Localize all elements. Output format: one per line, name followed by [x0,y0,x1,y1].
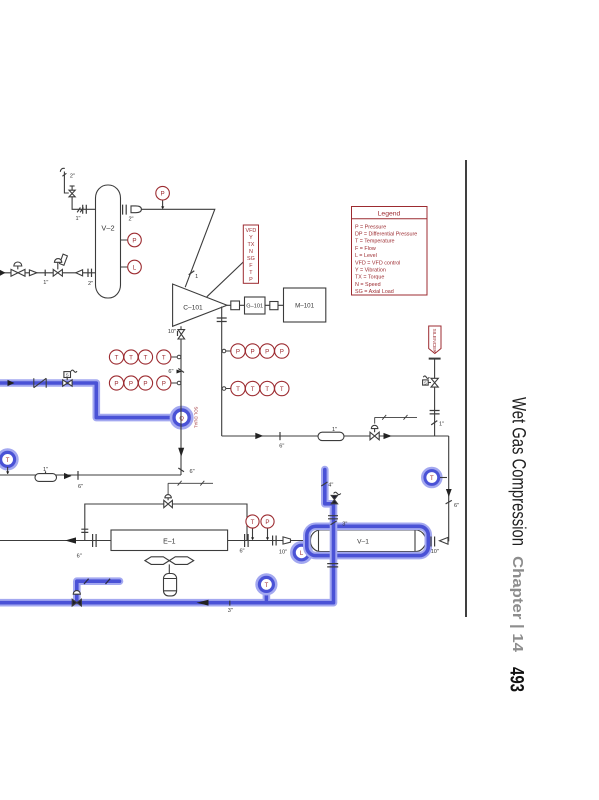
svg-text:S: S [424,380,427,385]
svg-text:T: T [144,354,148,361]
svg-text:E–1: E–1 [163,539,176,546]
svg-text:1": 1" [75,216,80,222]
svg-text:VFD: VFD [246,228,257,234]
svg-text:P = Pressure: P = Pressure [355,224,386,230]
svg-text:P: P [265,519,269,526]
svg-text:Wet Gas Compression: Wet Gas Compression [508,397,530,546]
svg-text:G–101: G–101 [246,304,263,310]
svg-text:V–2: V–2 [101,224,114,233]
svg-text:3": 3" [228,608,233,614]
svg-text:T: T [162,354,166,361]
svg-text:Legend: Legend [378,211,401,218]
svg-text:P: P [280,348,284,355]
svg-text:T: T [265,386,269,393]
svg-text:10": 10" [431,549,439,555]
svg-text:P: P [143,380,147,387]
svg-text:DP = Differential Pressure: DP = Differential Pressure [355,232,417,238]
svg-text:T: T [115,354,119,361]
svg-text:6": 6" [454,503,459,509]
svg-text:S: S [66,373,69,378]
svg-text:P: P [236,348,240,355]
svg-text:P: P [249,277,253,283]
svg-text:T = Temperature: T = Temperature [355,239,395,245]
svg-text:1: 1 [195,274,198,280]
svg-text:T: T [236,386,240,393]
svg-text:V–1: V–1 [357,539,369,546]
svg-text:TX = Torque: TX = Torque [355,275,384,281]
svg-text:Q: Q [179,416,184,422]
svg-text:P: P [161,191,165,198]
svg-text:6": 6" [279,443,284,449]
svg-text:T: T [280,386,284,393]
svg-text:TX: TX [247,242,254,248]
svg-text:1": 1" [43,280,48,286]
svg-text:SILENCER: SILENCER [431,329,437,354]
svg-text:SG = Axial Load: SG = Axial Load [355,289,394,295]
svg-text:VFD = VFD control: VFD = VFD control [355,260,400,266]
svg-text:6": 6" [190,469,195,475]
svg-text:L = Level: L = Level [355,253,377,259]
svg-text:T: T [430,476,434,482]
svg-text:N: N [249,249,253,255]
svg-text:493: 493 [506,667,528,692]
svg-text:L: L [133,264,137,271]
svg-text:10": 10" [168,329,176,335]
svg-text:1": 1" [43,467,48,473]
svg-text:4": 4" [328,482,333,488]
svg-text:1": 1" [439,422,444,428]
svg-text:P: P [265,348,269,355]
svg-text:N = Speed: N = Speed [355,282,381,288]
svg-text:6": 6" [239,548,244,554]
svg-text:F = Flow: F = Flow [355,246,376,252]
svg-text:2": 2" [128,217,133,223]
svg-text:P: P [251,348,255,355]
svg-text:T: T [6,458,10,464]
svg-text:2": 2" [88,281,93,287]
svg-text:T: T [251,519,255,526]
svg-text:Y: Y [249,235,253,241]
svg-text:T: T [251,386,255,393]
svg-text:C–101: C–101 [183,305,203,312]
svg-text:2": 2" [70,173,75,179]
svg-text:Y = Vibration: Y = Vibration [355,268,386,274]
svg-text:6": 6" [168,369,173,375]
svg-text:P: P [162,380,166,387]
svg-text:P: P [129,380,133,387]
svg-text:3": 3" [342,522,347,528]
svg-text:T: T [129,354,133,361]
svg-text:P: P [132,237,136,244]
svg-text:M–101: M–101 [295,303,314,310]
svg-text:Chapter | 14: Chapter | 14 [509,556,526,653]
svg-text:T: T [265,583,269,589]
svg-text:SOL DUAL: SOL DUAL [194,407,199,429]
svg-text:6": 6" [77,553,82,559]
svg-text:SG: SG [247,256,255,262]
svg-text:6": 6" [78,484,83,490]
svg-text:P: P [114,380,118,387]
svg-text:1": 1" [332,427,337,433]
svg-text:10": 10" [279,549,287,555]
